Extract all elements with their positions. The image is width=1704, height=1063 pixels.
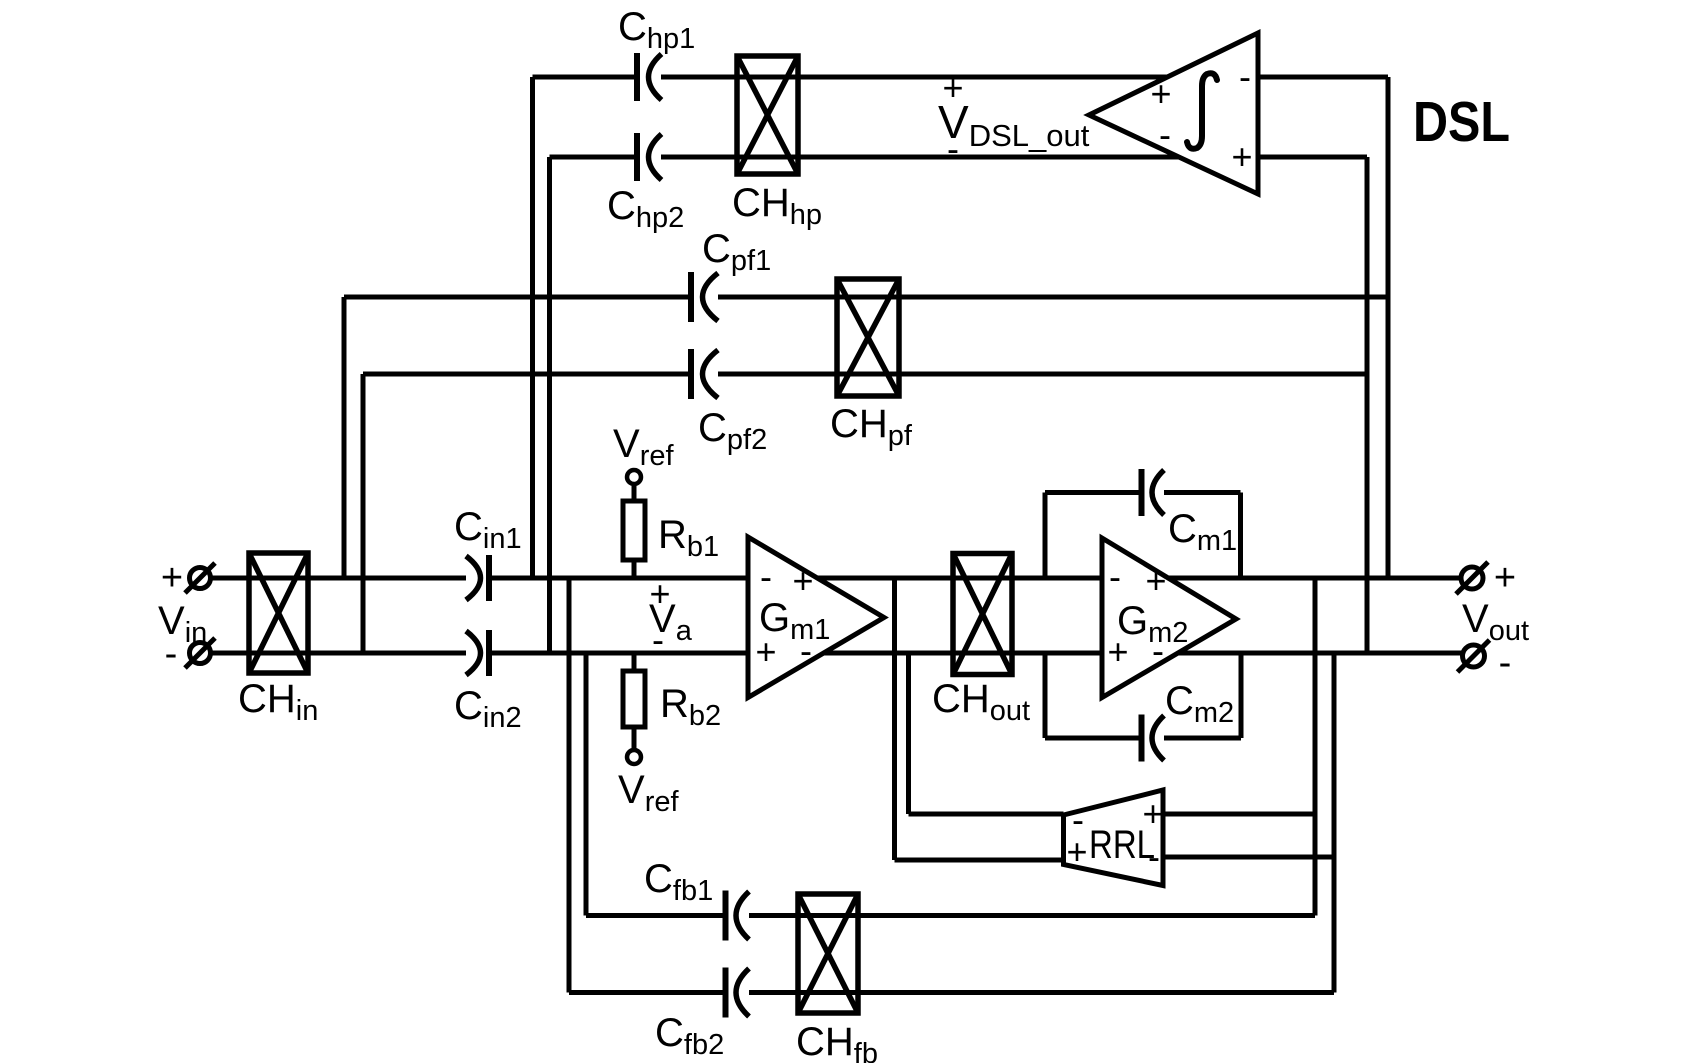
svg-text:-: -: [652, 619, 664, 660]
svg-text:+: +: [161, 557, 183, 599]
terminal Vref bottom: [627, 750, 641, 764]
wire vertical V13 x=1315 top bus to RRL+ and Cfb1: [1313, 578, 1318, 916]
terminal Vin+ phi: [185, 563, 215, 593]
capacitor C_in1: [466, 555, 489, 601]
svg-text:-: -: [1239, 56, 1251, 97]
integral sign inside DSL: [1187, 73, 1217, 149]
wire vertical V1 x=532.5 Chp1 to top bus: [530, 77, 535, 578]
wire vertical V9 x=1045 Cm1 left leg: [1043, 493, 1048, 579]
svg-text:+: +: [942, 67, 963, 108]
svg-text:DSL: DSL: [1413, 90, 1510, 154]
svg-text:-: -: [1109, 556, 1121, 597]
resistor R_b2: [623, 653, 645, 750]
wire RRL lower-left output line y=860: [895, 858, 1064, 863]
wire Cm1 loop top line y=492.5: [1045, 490, 1142, 495]
svg-text:+: +: [1142, 793, 1163, 834]
capacitor C_pf2: [691, 349, 718, 399]
terminal Vin- phi: [185, 638, 215, 668]
integrator DSL triangle: [1089, 33, 1258, 194]
wire Cm2 loop bottom line y=738: [1045, 736, 1142, 741]
svg-text:+: +: [755, 631, 776, 672]
wire Cpf2 net line y=374: [363, 372, 691, 377]
capacitor C_hp1: [637, 53, 662, 101]
wire vertical V14 x=1334 bottom bus to RRL- and Cfb2: [1332, 653, 1337, 993]
wire DSL plus-input line y=157 right: [1258, 155, 1367, 160]
svg-text:-: -: [1152, 630, 1164, 671]
resistor R_b1: [623, 484, 645, 578]
chopper CH_pf: [837, 279, 899, 396]
svg-text:-: -: [165, 633, 178, 675]
svg-text:-: -: [1148, 836, 1160, 877]
wire bottom main bus y=653: [211, 651, 466, 656]
svg-text:+: +: [649, 573, 670, 614]
wire vertical V12 x=1241 Cm2 right leg: [1239, 653, 1244, 738]
wire vertical V2 x=549.5 Chp2 to bottom bus: [547, 157, 552, 653]
terminal Vout- phi: [1458, 640, 1490, 672]
chopper CH_hp: [737, 56, 798, 174]
terminal Vout+ phi: [1456, 562, 1488, 594]
svg-text:+: +: [1494, 557, 1516, 599]
wire Cfb2 net line y=992.5: [569, 990, 726, 995]
wire vertical V8 x=908.5 bottom bus to RRL upper-left: [906, 653, 911, 814]
capacitor C_pf1: [691, 272, 718, 322]
chopper CH_fb: [798, 894, 858, 1013]
op-amp Gm2: [1102, 538, 1236, 698]
wire DSL minus-input line y=77 right: [1258, 75, 1388, 80]
svg-text:+: +: [1145, 560, 1166, 601]
wire Chp1 net top line y=77: [533, 75, 638, 80]
wire RRL upper-left output line y=814: [909, 812, 1064, 817]
wire vertical V10 x=1045 Cm2 left leg: [1043, 653, 1048, 738]
op-amp Gm1: [748, 537, 884, 698]
svg-text:+: +: [1150, 73, 1171, 114]
wire RRL lower-right input line y=857: [1163, 855, 1334, 860]
wire vertical V16 x=1388 DSL- input to top bus: [1386, 77, 1391, 578]
svg-text:+: +: [1231, 136, 1252, 177]
wire vertical V4 x=363 Cpf2 to bottom bus: [361, 374, 366, 653]
svg-text:+: +: [792, 560, 813, 601]
wire vertical V15 x=1367 DSL+ input to bottom bus: [1365, 157, 1370, 653]
wire Cfb1 net line y=915.5: [586, 913, 726, 918]
svg-text:-: -: [1499, 642, 1512, 684]
capacitor C_m2: [1142, 715, 1165, 762]
capacitor C_m1: [1142, 469, 1165, 516]
wire vertical V11 x=1240.5 Cm1 right leg: [1238, 493, 1243, 579]
wire top main bus y=578: [211, 576, 466, 581]
wire vertical V3 x=344 Cpf1 to top bus: [342, 297, 347, 578]
amplifier RRL trapezoid: [1064, 790, 1164, 886]
wire RRL upper-right input line y=814: [1163, 812, 1315, 817]
wire vertical V6 x=586 bottom bus to Cfb1: [584, 653, 589, 916]
svg-text:-: -: [760, 556, 772, 597]
wire vertical V7 x=894.5 top bus to RRL lower-left: [892, 578, 897, 860]
svg-text:-: -: [947, 128, 959, 169]
capacitor C_fb2: [726, 968, 750, 1018]
svg-text:-: -: [1159, 114, 1171, 155]
svg-text:+: +: [1066, 831, 1087, 872]
wire Cpf1 net line y=297: [344, 295, 691, 300]
capacitor C_hp2: [637, 133, 662, 181]
chopper CH_out: [953, 554, 1012, 675]
wire Chp2 net line y=157: [550, 155, 638, 160]
chopper CH_in: [249, 553, 308, 673]
svg-text:+: +: [1107, 631, 1128, 672]
terminal Vref top: [627, 470, 641, 484]
wire vertical V5 x=569 top bus to Cfb2: [567, 578, 572, 993]
capacitor C_in2: [466, 630, 489, 676]
svg-text:-: -: [800, 630, 812, 671]
capacitor C_fb1: [726, 891, 750, 941]
